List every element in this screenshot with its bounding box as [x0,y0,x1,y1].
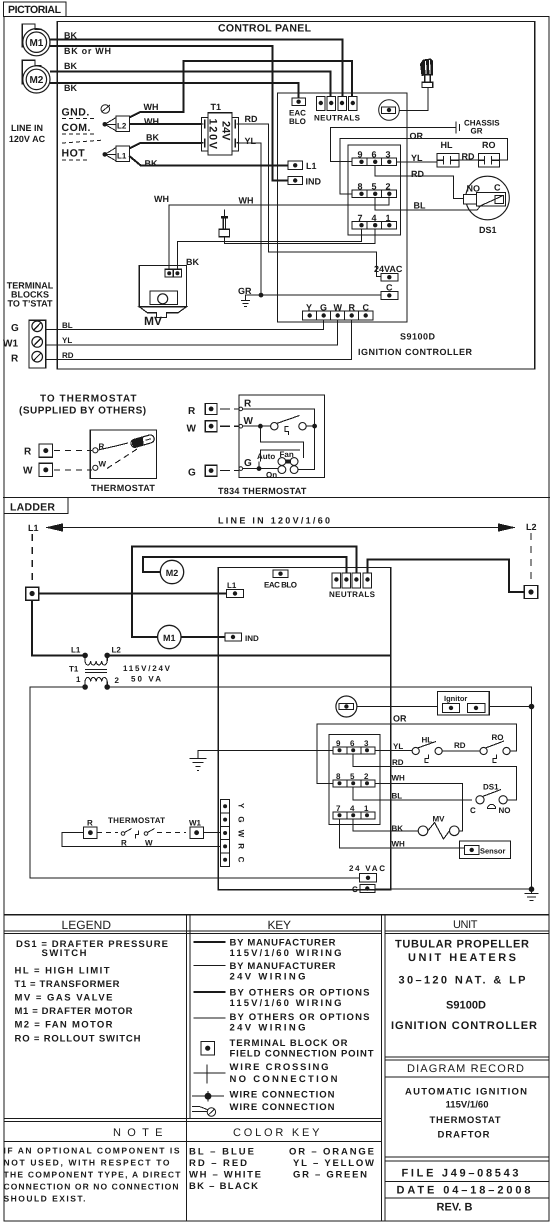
svg-text:GR: GR [238,286,252,296]
svg-text:M1: M1 [29,38,43,49]
chassis ground bars [456,122,460,134]
svg-text:LEGEND: LEGEND [62,918,113,932]
svg-text:TERMINAL BLOCK OR: TERMINAL BLOCK OR [230,1038,348,1049]
fan switch box [261,450,301,462]
svg-text:RD: RD [245,114,258,124]
svg-text:On: On [266,471,277,480]
svg-text:OR – ORANGE: OR – ORANGE [289,1147,374,1158]
BK wire 4 to MV left [353,819,418,831]
svg-text:M1: M1 [163,633,176,643]
svg-text:WIRE CONNECTION: WIRE CONNECTION [230,1102,335,1113]
wire M1 BK to neutral3 [50,40,343,97]
svg-text:YL – YELLOW: YL – YELLOW [293,1158,374,1169]
svg-text:R: R [244,399,252,410]
key sample thin others 24V line [194,1017,226,1019]
svg-text:BY OTHERS OR OPTIONS: BY OTHERS OR OPTIONS [230,988,370,999]
T1 secondary coil [85,678,107,688]
key wire connection crimp symbol [192,1107,208,1110]
svg-text:DS1: DS1 [479,225,497,235]
svg-text:RO: RO [492,733,504,742]
L1 dashed drop [31,534,33,585]
wire M1 to IND [181,636,225,638]
EAC BLO terminal [292,98,306,105]
L1 field box [105,146,130,161]
Ignitor box [437,692,489,715]
svg-text:WH: WH [144,102,159,112]
R wire inside [243,409,315,426]
svg-text:CONTROL PANEL: CONTROL PANEL [218,23,312,35]
ground wire to 963 row [198,750,333,758]
LADDER label box [4,498,68,514]
T1 pin top-right [235,120,238,129]
neutral terminals ladder [332,573,372,588]
svg-text:THERMOSTAT: THERMOSTAT [108,816,165,825]
ignitor circle terminal ladder [336,696,357,717]
svg-text:BY MANUFACTURER: BY MANUFACTURER [230,961,336,972]
transformer primary wire L2 side to box edge [107,654,390,656]
dashed wires to thermostat [54,451,92,470]
wire 7 to MV [177,229,361,270]
T1 primary coil [85,655,107,665]
svg-text:M1 = DRAFTER MOTOR: M1 = DRAFTER MOTOR [15,1006,133,1017]
note band top double [4,1118,382,1120]
terminal blocks strip [29,320,46,368]
svg-text:BK: BK [64,30,77,40]
svg-text:GND.: GND. [62,107,90,119]
wire neutral4 to L2 [368,560,525,593]
unit column separators [385,1056,549,1058]
svg-text:DATE 04–18–2008: DATE 04–18–2008 [397,1185,531,1197]
drafter motor M1 [158,625,181,648]
svg-text:HOT: HOT [62,148,86,160]
grid box ladder [329,735,380,825]
svg-text:BK: BK [64,83,77,93]
svg-text:MV: MV [144,314,162,328]
svg-text:BY MANUFACTURER: BY MANUFACTURER [230,938,336,949]
svg-text:115V/1/60: 115V/1/60 [446,1100,489,1111]
svg-text:115V/1/60 WIRING: 115V/1/60 WIRING [230,948,342,959]
svg-text:CONNECTION OR NO CONNECTION: CONNECTION OR NO CONNECTION [4,1182,179,1192]
svg-text:L1: L1 [117,152,127,161]
secondary wire left down to 24VAC [30,687,360,878]
svg-text:BK: BK [392,824,404,833]
COM fan connector dot [103,122,108,127]
svg-text:BY OTHERS OR OPTIONS: BY OTHERS OR OPTIONS [230,1012,370,1023]
svg-text:TO THERMOSTAT: TO THERMOSTAT [40,394,137,405]
wire L1 box to controller L1 [39,593,227,595]
svg-text:Auto: Auto [257,452,275,461]
NEUTRALS terminals [317,96,358,110]
svg-text:24VAC: 24VAC [374,264,403,274]
wire YL from T1 down to GR junction [237,143,261,295]
svg-text:DRAFTOR: DRAFTOR [438,1130,490,1141]
svg-text:NOT USED, WITH RESPECT TO: NOT USED, WITH RESPECT TO [4,1158,170,1168]
ground screw symbol [101,105,110,114]
svg-text:DS1 = DRAFTER PRESSURE: DS1 = DRAFTER PRESSURE [16,939,168,950]
svg-text:T1 = TRANSFORMER: T1 = TRANSFORMER [15,979,120,990]
long WH wire MV to terminal2 [169,197,389,270]
R bypass wire [62,833,221,847]
G pin circle [239,467,243,471]
svg-text:BL: BL [392,792,403,801]
ground symbol GR [241,300,250,306]
HOT fan connector dot [103,152,108,157]
L2 terminal box [524,586,538,599]
svg-text:YL: YL [62,336,72,345]
secondary wire right to rail [107,687,531,894]
svg-text:RD: RD [392,758,404,767]
svg-text:GR: GR [471,127,483,136]
svg-text:BK: BK [145,159,158,169]
mercury bulb [130,434,155,448]
chassis wire from 963 row to chassis bars [331,128,456,162]
legend+key header separator double [4,930,382,932]
key wire connection dot symbol [192,1095,224,1097]
key sample thick others line [194,991,226,993]
fan switch circles [278,458,286,466]
wire 4 to sensor [224,229,375,244]
WH wire 7 to sensor [340,819,465,848]
key sample thick 115V line [194,941,226,943]
wire RD from T1 down to 24VAC terminal [237,124,381,276]
svg-text:L1: L1 [28,523,39,533]
svg-text:REV. B: REV. B [437,1202,473,1214]
svg-text:RO = ROLLOUT SWITCH: RO = ROLLOUT SWITCH [15,1034,141,1045]
svg-text:Sensor: Sensor [480,847,506,856]
control panel box [57,22,535,370]
R contact inside [93,448,98,453]
svg-text:(SUPPLIED BY OTHERS): (SUPPLIED BY OTHERS) [19,406,147,417]
svg-text:G: G [237,816,246,822]
svg-text:RO: RO [482,140,496,150]
svg-text:WH: WH [239,196,254,206]
wire W1 to strip W [203,832,220,834]
wire M1 loop to neutral3 [132,547,356,638]
BL wire 5 to DS1 C [353,787,472,800]
svg-text:RD: RD [454,741,466,750]
svg-text:NEUTRALS: NEUTRALS [329,590,376,599]
ground symbol right rail [525,894,539,901]
L2 field box [105,116,130,131]
gas valve MV [139,266,186,318]
svg-text:HL: HL [441,140,453,150]
W anticipator path down to fan switch [260,426,303,458]
wire HL to RO [459,159,478,161]
svg-text:W1: W1 [189,819,202,828]
RD wire HL to RO [442,750,480,752]
svg-text:24V: 24V [220,121,232,141]
IND controller terminal [288,176,303,184]
dashed blade from W [107,449,137,469]
svg-text:BL: BL [62,321,73,330]
svg-text:C: C [470,806,476,815]
svg-text:S9100D: S9100D [400,332,436,342]
svg-text:W: W [23,466,33,477]
svg-text:120V AC: 120V AC [9,134,46,144]
svg-text:T1: T1 [69,665,79,674]
WH wire 2 to MV right [375,783,463,831]
svg-text:IND: IND [245,634,259,643]
dashed separators [62,119,104,161]
svg-text:S9100D: S9100D [446,1000,486,1012]
svg-text:IGNITION CONTROLLER: IGNITION CONTROLLER [391,1020,537,1032]
wire GR junction to C terminal [246,295,382,300]
svg-text:C: C [237,857,246,863]
svg-text:120V: 120V [207,119,219,150]
svg-text:IGNITION CONTROLLER: IGNITION CONTROLLER [358,347,473,357]
PICTORIAL label box [4,2,67,17]
wire 6 to DS1 NO [375,166,463,199]
junction dot YL/GR [259,293,264,298]
note/colorkey header separator [4,1141,382,1143]
key terminal block symbol [201,1042,215,1056]
thermostat box [90,430,156,479]
svg-text:NO: NO [499,806,511,815]
blower motor M2 [23,66,50,93]
svg-text:WH: WH [154,194,169,204]
fan motor M2 [160,560,183,583]
wire BL G to strip [46,320,324,330]
svg-text:OR: OR [393,714,407,724]
svg-text:LINE IN 120V/1/60: LINE IN 120V/1/60 [218,516,330,526]
terminal grid box [348,145,401,235]
svg-text:R: R [188,406,196,417]
svg-text:YL: YL [245,136,257,146]
svg-text:L2: L2 [526,522,537,532]
controller box S9100D [278,93,407,322]
wire 852row left loop from RO [340,139,507,194]
svg-text:R: R [237,843,246,849]
wire 5 to DS1 C (BL) [375,198,480,211]
svg-text:EAC BLO: EAC BLO [264,581,297,590]
svg-text:AUTOMATIC IGNITION: AUTOMATIC IGNITION [405,1087,527,1098]
svg-text:WIRE CONNECTION: WIRE CONNECTION [230,1090,335,1101]
key sample thin 24V line [194,965,226,967]
heat switch contacts [271,423,278,430]
W pin circle [239,424,243,428]
svg-text:Ignitor: Ignitor [444,694,467,703]
svg-text:NO CONNECTION: NO CONNECTION [230,1074,338,1085]
L1 controller terminal [288,161,303,169]
legend/key divider double [186,915,188,1221]
svg-text:L2: L2 [112,646,122,655]
T834 box [239,395,325,478]
svg-text:W: W [237,830,246,838]
svg-text:WH: WH [392,840,406,849]
W contact inside [93,465,98,470]
svg-text:BK: BK [146,133,159,143]
wire M2 BK to neutral2 [50,72,331,97]
key wire crossing symbol [194,1072,226,1074]
IND terminal [225,633,242,641]
svg-text:THE COMPONENT TYPE, A DIRECT: THE COMPONENT TYPE, A DIRECT [4,1170,182,1180]
svg-text:L1: L1 [306,161,317,171]
T1 pin top-left [202,120,205,129]
T1 core bars [85,670,107,673]
svg-text:COM.: COM. [62,122,91,134]
svg-text:LINE IN: LINE IN [11,123,43,133]
svg-text:WIRE CROSSING: WIRE CROSSING [230,1062,329,1073]
svg-text:Y: Y [237,803,246,809]
key symbols [192,942,226,1116]
svg-text:COLOR KEY: COLOR KEY [233,1127,321,1139]
wire WH L2 to T1 [129,123,201,125]
svg-text:W: W [244,416,254,427]
section divider pictorial/ladder [3,497,550,499]
svg-text:M2: M2 [29,75,43,86]
svg-text:DS1: DS1 [483,783,499,792]
unit column text [391,939,537,1214]
fan sw right wire up to R/W junction [298,426,315,470]
unit header separator double [385,930,549,932]
svg-text:BK or WH: BK or WH [64,46,111,56]
ground symbol ladder left [190,759,207,771]
svg-text:THERMOSTAT: THERMOSTAT [430,1115,501,1126]
svg-text:PICTORIAL: PICTORIAL [8,4,62,16]
DS1 drafter switch [464,176,510,220]
wire BK L1 to L1 terminal [129,156,288,165]
svg-text:FIELD CONNECTION POINT: FIELD CONNECTION POINT [230,1049,374,1060]
svg-text:W: W [187,424,197,435]
YGWRC strip ladder [221,800,230,867]
svg-text:24 VAC: 24 VAC [349,864,385,873]
ignitor circle terminal [379,100,400,121]
svg-text:TO T’STAT: TO T’STAT [8,299,53,309]
left rail L1 to transformer [32,600,85,655]
svg-text:UNIT HEATERS: UNIT HEATERS [408,952,516,964]
svg-text:RD: RD [62,351,74,360]
wire M1 BK-or-WH down to IND [50,46,288,181]
blower motor M1 [23,29,50,56]
svg-text:UNIT: UNIT [453,919,479,931]
wire WH from L2 up-over to neutral4 [129,61,352,118]
tables band top line [4,914,549,916]
svg-text:YL: YL [393,742,403,751]
svg-text:C: C [352,885,358,894]
controller box ladder [218,568,391,890]
svg-text:BK: BK [64,61,77,71]
YL loop RO to 852 row [317,724,517,783]
svg-text:L1: L1 [71,646,81,655]
Sensor box ladder [459,841,510,859]
T1 pin bottom-right [235,138,238,147]
wire M2 BK to EAC BLO [50,83,299,98]
svg-text:C: C [494,183,501,193]
svg-text:IND: IND [306,177,322,187]
svg-text:L2: L2 [117,122,127,131]
svg-text:NEUTRALS: NEUTRALS [314,114,361,123]
G wire inside [243,468,278,470]
svg-text:WH: WH [392,774,406,783]
svg-text:TUBULAR PROPELLER: TUBULAR PROPELLER [395,939,529,951]
svg-text:BL – BLUE: BL – BLUE [189,1147,254,1158]
wire RD R to strip [46,320,352,360]
svg-text:G: G [188,468,196,479]
svg-text:1: 1 [76,675,81,684]
svg-text:BLO: BLO [289,117,306,126]
svg-text:KEY: KEY [268,918,293,932]
wire R contact to bulb [98,443,128,450]
wire BK L1 to T1 [129,143,201,149]
svg-text:G: G [244,458,252,469]
EAC BLO terminal [273,570,288,578]
svg-text:YL: YL [411,153,423,163]
svg-text:OR: OR [410,131,424,141]
svg-text:L1: L1 [227,581,237,590]
svg-text:RD: RD [411,169,424,179]
key/unit divider double [381,915,383,1221]
wire YL W1 to strip [46,320,338,345]
svg-text:2: 2 [115,676,120,685]
svg-text:THERMOSTAT: THERMOSTAT [91,483,155,493]
svg-text:NO: NO [467,184,481,194]
RD wire 6 to DS1 NO [353,754,516,800]
svg-text:R: R [87,819,93,828]
svg-text:GR – GREEN: GR – GREEN [293,1170,367,1181]
C wire to rail [375,888,532,890]
ignitor plug icon [399,59,433,111]
svg-text:LADDER: LADDER [10,502,55,514]
wire circle to ignitor to rail [357,706,532,708]
R pin circle [239,407,243,411]
svg-text:T834 THERMOSTAT: T834 THERMOSTAT [218,486,307,496]
wire M2 loop to neutral2 [143,557,346,573]
flame sensor symbol [219,210,230,237]
svg-text:WH: WH [144,117,159,127]
T1 pin bottom-left [202,138,205,147]
svg-text:T1: T1 [211,102,222,112]
svg-text:DIAGRAM RECORD: DIAGRAM RECORD [407,1063,525,1075]
L2 dashed drop [530,533,532,583]
svg-text:W: W [99,460,107,469]
svg-text:W1: W1 [3,339,18,350]
svg-text:R: R [11,354,19,365]
wire YL row to HL [397,161,437,163]
svg-text:M2: M2 [166,568,179,578]
svg-text:R: R [24,447,32,458]
svg-text:BK: BK [186,257,199,267]
svg-text:BK – BLACK: BK – BLACK [189,1181,258,1192]
W wire inside [243,425,271,427]
YL wire 963 to HL [375,749,412,751]
svg-text:MV = GAS VALVE: MV = GAS VALVE [15,993,113,1004]
L1 terminal box [26,587,39,600]
svg-text:WH – WHITE: WH – WHITE [189,1170,261,1181]
svg-text:SHOULD EXIST.: SHOULD EXIST. [4,1194,86,1204]
svg-text:BL: BL [414,201,426,211]
svg-text:G: G [11,323,19,334]
svg-text:30–120 NAT. & LP: 30–120 NAT. & LP [399,975,526,987]
svg-text:115V/1/60 WIRING: 115V/1/60 WIRING [230,998,342,1009]
dashed tstat contacts [97,829,186,839]
